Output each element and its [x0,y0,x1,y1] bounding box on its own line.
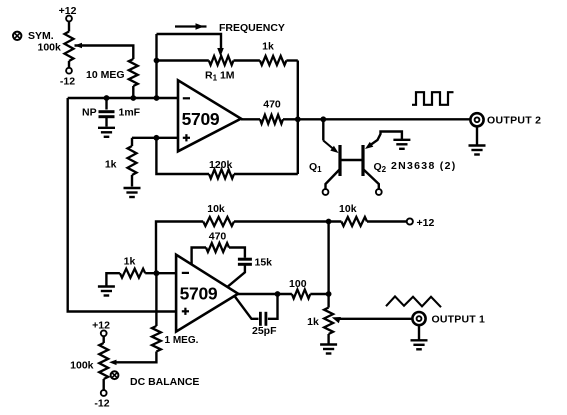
adjustment symbol DC balance [111,371,119,379]
svg-text:10k: 10k [207,203,225,215]
transistor Q2 2N3638 [363,132,402,190]
resistor 10k (feedback U2) [203,203,341,226]
capacitor 25pF [235,294,278,337]
ground (OUTPUT 1 jack) [411,325,428,349]
svg-text:10 MEG: 10 MEG [86,69,125,81]
resistor 470 (U2 compensation) [192,230,245,264]
wire U2 inverting input bus [145,270,176,276]
ground (1k U2) [98,287,115,296]
svg-text:1k: 1k [124,256,136,268]
wire U2 output [238,291,292,297]
svg-text:1k: 1k [262,41,274,53]
terminal -12 (symmetry pot bottom) [60,68,75,88]
svg-text:5709: 5709 [182,109,220,129]
op-amp U1 5709 [178,80,241,151]
capacitor 1mF NP [82,95,141,126]
terminal Q2 collector [376,189,382,195]
transistor Q1 2N3638 [326,145,341,189]
terminal Q1 collector [323,189,329,195]
potentiometer SYM 100k [65,32,83,68]
capacitor 15k (U2 compensation) [228,257,273,287]
svg-text:25pF: 25pF [252,325,277,337]
wire to Q1 emitter [323,119,338,153]
svg-text:DC BALANCE: DC BALANCE [130,376,199,388]
svg-text:1k: 1k [105,159,117,171]
svg-text:OUTPUT 1: OUTPUT 1 [432,313,486,325]
potentiometer R1 1M (frequency) [157,56,235,83]
terminal +12 (DC balance pot top) [92,319,110,336]
svg-text:-12: -12 [60,76,75,88]
wire [68,21,70,31]
svg-text:100k: 100k [38,42,62,54]
terminal -12 (DC balance pot bottom) [94,390,109,409]
svg-text:120k: 120k [209,159,233,171]
wire Q1-Q2 base link [340,159,363,161]
svg-text:OUTPUT 2: OUTPUT 2 [487,115,541,127]
ground (1mF cap) [98,128,115,137]
potentiometer 1k (output level) [307,308,412,344]
resistor 470 (U1 output) [241,99,283,124]
wire bottom top bus [156,222,203,274]
ground (Q2 emitter) [393,140,410,149]
wire output 2 line [283,116,470,122]
resistor 1 MEG (DC balance) [113,273,199,362]
svg-text:470: 470 [209,230,227,242]
ground (OUTPUT 2 jack) [469,127,486,155]
potentiometer 100k DC balance [99,336,116,390]
terminal +12 (bottom) [407,217,435,229]
ground (1k pot) [320,345,337,354]
svg-text:+12: +12 [59,5,77,17]
jack OUTPUT 2 [470,113,541,126]
resistor 1k (U1 + input to ground) [105,138,137,187]
svg-text:1mF: 1mF [119,107,141,119]
resistor 10k (to +12) [339,203,407,226]
resistor 1k (U2 - input to ground) [106,256,145,286]
wire top loop to R1 wiper [157,34,224,57]
svg-text:+12: +12 [417,217,435,229]
wire node A (U1 inverting input bus) [68,97,178,99]
svg-text:+12: +12 [92,319,110,331]
svg-text:2N3638 (2): 2N3638 (2) [391,160,457,172]
svg-text:1k: 1k [307,316,319,328]
terminal +12 (symmetry pot top) [59,5,77,21]
svg-text:100: 100 [289,278,307,290]
wire right vertical (output to feedback) [297,61,299,175]
wire feedback vertical [154,34,160,101]
resistor 10 MEG [86,59,138,101]
svg-text:-12: -12 [94,398,109,410]
frequency adjust arrow [175,23,207,30]
wire long left vertical to U2 + input [68,98,176,312]
svg-text:SYM.: SYM. [28,30,54,42]
op-amp U2 5709 [176,255,238,332]
svg-text:FREQUENCY: FREQUENCY [219,22,285,34]
wire output junction vertical [326,222,332,308]
ground (1k U1) [124,188,141,197]
wire pot wiper to 10 MEG [75,46,134,60]
square wave symbol [412,92,454,105]
adjustment symbol SYM [13,32,21,40]
resistor 100 [289,278,329,298]
jack OUTPUT 1 [412,312,485,325]
svg-text:470: 470 [263,99,281,111]
svg-text:10k: 10k [339,203,357,215]
svg-text:15k: 15k [255,257,273,269]
resistor 1k (top) [234,41,298,66]
svg-text:5709: 5709 [180,284,218,304]
svg-text:100k: 100k [70,360,94,372]
svg-text:1 MEG.: 1 MEG. [165,335,199,346]
triangle wave symbol [386,296,441,307]
svg-text:R1 1M: R1 1M [205,70,235,83]
resistor 120k (positive feedback) [156,138,297,179]
svg-text:NP: NP [82,107,97,119]
wire U1 non-inverting input [132,135,178,141]
